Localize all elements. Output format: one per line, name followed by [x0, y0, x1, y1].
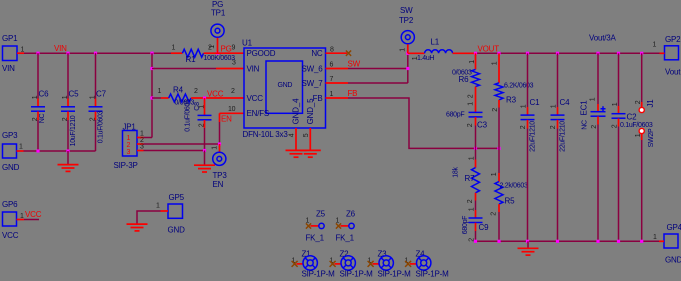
svg-text:GND: GND — [278, 82, 293, 89]
svg-text:680pF: 680pF — [462, 216, 469, 234]
svg-text:3: 3 — [140, 144, 144, 151]
svg-text:Z5: Z5 — [316, 210, 326, 219]
svg-text:1: 1 — [199, 105, 206, 109]
svg-text:JP1: JP1 — [123, 123, 137, 132]
svg-text:GP2: GP2 — [665, 35, 681, 44]
svg-text:2: 2 — [635, 100, 642, 104]
resistor R3 6.2K/0603 — [492, 53, 534, 148]
mounting hole Z1 SIP-1P-M — [292, 250, 336, 279]
svg-text:3: 3 — [127, 149, 131, 156]
svg-text:FK_1: FK_1 — [336, 234, 355, 243]
testpoint TP2 — [399, 6, 414, 53]
capacitor C7 — [89, 53, 107, 151]
pin 5 ground stub — [303, 128, 310, 150]
svg-text:1: 1 — [491, 172, 498, 176]
svg-text:1: 1 — [492, 61, 499, 65]
mounting hole Z2 SIP-1P-M — [330, 250, 374, 279]
svg-text:Z6: Z6 — [346, 210, 356, 219]
resistor R4 0/0603 — [152, 86, 244, 107]
svg-text:1.4uH: 1.4uH — [417, 55, 434, 62]
svg-text:1: 1 — [635, 133, 642, 137]
svg-text:6: 6 — [330, 61, 334, 68]
port GP5 — [156, 193, 185, 235]
svg-text:2: 2 — [550, 125, 557, 129]
svg-text:DFN-10L 3x3: DFN-10L 3x3 — [243, 130, 289, 139]
svg-text:R5: R5 — [505, 197, 516, 206]
capacitor C8 0.1uF/0603 — [185, 98, 212, 151]
svg-text:Vout/3A: Vout/3A — [589, 34, 616, 43]
svg-text:2: 2 — [492, 108, 499, 112]
svg-text:1: 1 — [469, 60, 476, 64]
svg-text:GP4: GP4 — [667, 223, 681, 232]
capacitor C5 — [61, 53, 79, 151]
op-amp U1 P3OOD DFN-10L 3x3 — [242, 39, 326, 140]
svg-text:C6: C6 — [39, 90, 50, 99]
wire SW pin6 — [326, 61, 408, 68]
svg-text:VCC: VCC — [247, 94, 264, 103]
svg-text:PGOOD: PGOOD — [247, 49, 276, 58]
ground (U1 pin 5) — [300, 150, 321, 157]
svg-text:2: 2 — [468, 94, 475, 98]
svg-text:VCC: VCC — [207, 90, 224, 99]
svg-text:GP5: GP5 — [169, 193, 185, 202]
svg-text:R1: R1 — [186, 55, 197, 64]
svg-text:SIP-1P-M: SIP-1P-M — [378, 270, 412, 279]
wire SW vertical — [407, 53, 409, 83]
svg-text:2: 2 — [90, 117, 97, 121]
svg-text:18k: 18k — [453, 167, 460, 178]
svg-text:22uF/1210: 22uF/1210 — [560, 121, 567, 152]
resistor R6 0/0603 — [452, 53, 480, 112]
testpoint TP3 — [212, 144, 228, 189]
ground (main bottom) — [518, 241, 539, 255]
ground (U1 pin 4) — [286, 150, 307, 157]
wire EN vertical — [220, 106, 245, 144]
svg-text:VIN: VIN — [2, 64, 15, 73]
svg-text:SW2P: SW2P — [648, 128, 655, 147]
svg-text:1: 1 — [412, 56, 419, 60]
wire VIN to U1 pin 3 — [152, 60, 244, 69]
svg-text:0.1uF/0603: 0.1uF/0603 — [185, 99, 192, 132]
connector JP1 SIP-3P — [114, 123, 145, 171]
svg-text:C7: C7 — [96, 90, 107, 99]
svg-text:2: 2 — [199, 123, 206, 127]
svg-text:C5: C5 — [69, 90, 80, 99]
svg-text:VCC: VCC — [25, 210, 42, 219]
svg-text:GND_4: GND_4 — [291, 98, 300, 124]
svg-text:NC: NC — [582, 120, 589, 130]
svg-text:0.1uF/0603: 0.1uF/0603 — [98, 110, 105, 143]
mounting hole Z3 SIP-1P-M — [368, 250, 412, 279]
svg-text:7: 7 — [330, 76, 334, 83]
mounting hole Z4 SIP-1P-M — [405, 250, 450, 279]
svg-text:C2: C2 — [627, 113, 638, 122]
svg-text:10uF/1210: 10uF/1210 — [70, 115, 77, 146]
svg-text:2.2k/0603: 2.2k/0603 — [500, 183, 528, 190]
svg-text:J1: J1 — [646, 99, 655, 108]
svg-text:PG: PG — [221, 45, 232, 54]
svg-text:EC1: EC1 — [580, 100, 589, 116]
capacitor C9 680pF — [462, 207, 489, 242]
capacitor C3 680pF — [446, 102, 488, 149]
port GP2 — [653, 35, 681, 77]
svg-text:2: 2 — [467, 199, 474, 203]
port GP1 — [2, 34, 25, 73]
svg-text:100K/0603: 100K/0603 — [204, 55, 236, 62]
svg-text:1: 1 — [612, 102, 619, 106]
svg-text:1: 1 — [590, 97, 597, 101]
svg-text:1: 1 — [62, 95, 69, 99]
svg-text:1: 1 — [468, 102, 475, 106]
svg-text:TP1: TP1 — [211, 9, 226, 18]
svg-text:1: 1 — [212, 146, 219, 150]
svg-text:1: 1 — [469, 207, 476, 211]
svg-text:R6: R6 — [459, 75, 470, 84]
svg-text:1: 1 — [172, 45, 176, 52]
svg-text:SW: SW — [348, 59, 361, 68]
svg-text:GP3: GP3 — [2, 131, 18, 140]
svg-text:VIN: VIN — [54, 44, 67, 53]
svg-text:1: 1 — [209, 45, 216, 49]
ground (GP5) — [127, 224, 148, 231]
svg-text:1: 1 — [19, 144, 23, 151]
svg-text:EN: EN — [221, 115, 232, 124]
node VIN junctions on rail — [36, 52, 219, 55]
svg-text:1: 1 — [521, 104, 528, 108]
wire VIN rail — [24, 52, 171, 54]
resistor R5 2.2k/0603 — [491, 148, 528, 241]
svg-text:22uF/1210: 22uF/1210 — [530, 121, 537, 152]
svg-text:R3: R3 — [506, 96, 517, 105]
wire VIN vertical feed — [151, 53, 153, 137]
svg-text:FB: FB — [348, 89, 358, 98]
svg-text:SIP-1P-M: SIP-1P-M — [416, 270, 450, 279]
port GP6 — [2, 200, 39, 240]
svg-text:SW_6: SW_6 — [302, 64, 324, 73]
fiducial Z6 FK_1 — [336, 210, 356, 243]
node SW junctions — [406, 52, 409, 70]
capacitor EC1 NC (polarized) — [580, 53, 606, 241]
wire JP1 pin3 to ground — [144, 150, 205, 152]
svg-text:1: 1 — [551, 104, 558, 108]
port GP4 — [653, 223, 681, 265]
svg-text:6.2K/0603: 6.2K/0603 — [504, 83, 534, 90]
svg-text:L1: L1 — [431, 38, 440, 47]
svg-text:VOUT: VOUT — [478, 45, 500, 54]
wire SW pin7 — [326, 76, 408, 83]
testpoint TP1 — [209, 0, 226, 53]
svg-text:2: 2 — [32, 117, 39, 121]
svg-text:1: 1 — [469, 156, 476, 160]
svg-text:SW: SW — [400, 6, 413, 15]
node junctions on left GND rail — [36, 149, 69, 152]
capacitor C2 0.1uF/0603 — [612, 53, 653, 241]
svg-text:2: 2 — [62, 117, 69, 121]
svg-text:EN: EN — [213, 180, 224, 189]
svg-text:10: 10 — [228, 106, 236, 113]
svg-text:SW_7: SW_7 — [302, 79, 324, 88]
svg-text:680pF: 680pF — [446, 112, 464, 119]
svg-text:FK_1: FK_1 — [306, 234, 325, 243]
fiducial Z5 FK_1 — [306, 210, 326, 243]
resistor R1 100K/0603 — [171, 45, 244, 65]
node junction EN/TP3 — [218, 142, 221, 145]
node GND rail junctions — [474, 240, 643, 243]
svg-text:C1: C1 — [530, 98, 541, 107]
svg-text:GP1: GP1 — [2, 34, 18, 43]
svg-text:1: 1 — [330, 91, 334, 98]
svg-text:2: 2 — [612, 124, 619, 128]
ground (C8 / JP1 pin3) — [194, 151, 215, 173]
node VCC junction — [203, 96, 206, 99]
resistor R7 18k — [453, 148, 480, 210]
svg-text:1: 1 — [400, 48, 407, 52]
svg-text:1: 1 — [653, 234, 657, 241]
svg-text:1: 1 — [653, 42, 657, 49]
svg-text:1: 1 — [32, 95, 39, 99]
svg-text:1: 1 — [90, 95, 97, 99]
pin 8 NC stub with no-ERC cross — [326, 47, 352, 56]
svg-text:GND: GND — [168, 226, 186, 235]
svg-text:NC: NC — [39, 114, 46, 124]
wire GND rail bottom — [476, 240, 660, 242]
svg-text:VIN: VIN — [247, 64, 260, 73]
svg-text:C3: C3 — [477, 121, 488, 130]
svg-text:EN/FS: EN/FS — [247, 109, 270, 118]
svg-text:C9: C9 — [479, 223, 490, 232]
svg-text:2: 2 — [491, 212, 498, 216]
svg-text:4: 4 — [289, 133, 296, 137]
svg-text:2: 2 — [231, 88, 235, 95]
svg-text:5: 5 — [303, 133, 310, 137]
wire JP1 pin2 to EN — [144, 143, 220, 145]
svg-text:1: 1 — [127, 135, 131, 142]
capacitor C6 — [31, 53, 49, 151]
node FB junctions — [474, 147, 501, 150]
port GP3 — [2, 131, 24, 172]
inductor L1 1.4uH — [408, 38, 476, 63]
wire FB from pin1 — [326, 91, 500, 149]
svg-text:C4: C4 — [560, 98, 571, 107]
svg-text:2: 2 — [194, 88, 198, 95]
svg-text:GND: GND — [2, 163, 20, 172]
svg-text:Vout: Vout — [665, 68, 681, 77]
node VOUT rail junctions — [474, 52, 643, 55]
svg-text:SIP-1P-M: SIP-1P-M — [302, 270, 336, 279]
pin 4 ground stub — [289, 128, 297, 150]
svg-text:R4: R4 — [173, 86, 184, 95]
connector J1 SW2P — [635, 53, 655, 241]
wire GP5 to ground — [137, 211, 161, 224]
svg-text:GP6: GP6 — [2, 200, 18, 209]
svg-text:GND: GND — [665, 256, 681, 265]
svg-text:SIP-3P: SIP-3P — [114, 161, 138, 170]
wire JP1 pin1 to VIN feed — [144, 137, 153, 139]
svg-text:TP2: TP2 — [399, 16, 414, 25]
svg-text:8: 8 — [330, 47, 334, 54]
svg-text:NC: NC — [311, 49, 323, 58]
capacitor C1 22uF/1210 — [520, 53, 540, 241]
svg-text:VCC: VCC — [2, 231, 19, 240]
node junctions on vertical feed — [150, 67, 153, 100]
capacitor C4 22uF/1210 — [550, 53, 570, 241]
svg-text:9: 9 — [232, 45, 236, 52]
svg-text:GND_5: GND_5 — [306, 98, 315, 124]
svg-text:2: 2 — [467, 123, 474, 127]
node junction C8/JP1 ground — [203, 149, 206, 152]
svg-text:U1: U1 — [242, 39, 253, 48]
svg-text:1: 1 — [158, 88, 162, 95]
svg-text:SIP-1P-M: SIP-1P-M — [340, 270, 374, 279]
svg-text:0.1uF/0603: 0.1uF/0603 — [620, 122, 653, 129]
svg-text:R7: R7 — [465, 174, 476, 183]
wire VOUT rail — [476, 52, 660, 54]
wire GND rail left — [24, 150, 96, 152]
svg-text:TP3: TP3 — [213, 171, 228, 180]
svg-text:2: 2 — [591, 125, 598, 129]
ground (left rail) — [58, 151, 79, 171]
svg-text:1: 1 — [156, 203, 160, 210]
svg-text:2: 2 — [520, 125, 527, 129]
